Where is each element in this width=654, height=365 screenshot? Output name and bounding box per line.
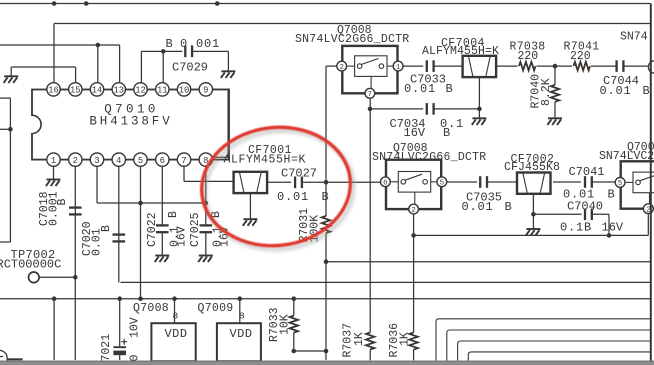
wire pin5 down	[140, 166, 142, 299]
wire drop to ground	[227, 51, 229, 71]
svg-text:B: B	[505, 200, 512, 214]
capacitor C7020	[113, 235, 126, 242]
resistor R7041	[574, 62, 591, 70]
Q7010 pin 16	[47, 83, 60, 96]
wire junction to C7040	[533, 213, 581, 215]
wire Q7008a pin2 stub	[326, 65, 337, 67]
wire pin4 jog down	[120, 281, 122, 283]
tick of bottom left component	[0, 355, 3, 357]
svg-text:10V: 10V	[129, 317, 142, 338]
Q7010 pin 6	[156, 153, 169, 166]
svg-text:10K: 10K	[279, 314, 292, 335]
svg-text:16V: 16V	[176, 226, 189, 247]
wire pin6 down	[161, 166, 163, 226]
wire C7025 to ground	[205, 232, 207, 255]
svg-text:SN74LVC2: SN74LVC2	[599, 150, 654, 163]
svg-text:Q7008: Q7008	[133, 302, 169, 315]
wire nested corner trace 3	[458, 341, 651, 361]
node pin11 junction	[161, 49, 166, 54]
svg-text:1: 1	[51, 156, 56, 166]
wire R7041 to C7044	[591, 65, 617, 67]
wire R7038 to node	[537, 65, 556, 67]
switch U3 Q7008b pin 5	[437, 177, 447, 188]
power block Q7009 VDD	[217, 323, 261, 361]
svg-text:16V: 16V	[602, 220, 624, 234]
svg-text:7021: 7021	[100, 334, 113, 362]
Q7010 notch edge cover	[31, 116, 34, 133]
svg-text:3: 3	[94, 156, 99, 166]
svg-text:6: 6	[160, 156, 165, 166]
wire pin12 to C7029	[141, 50, 182, 52]
ground C7022	[155, 256, 170, 263]
ground R7040	[547, 118, 562, 125]
capacitor C7022	[156, 225, 169, 232]
wire pin3 down	[96, 166, 98, 203]
svg-text:ALFYM455H=K: ALFYM455H=K	[422, 45, 499, 58]
wire left stub upper	[0, 97, 10, 99]
switch U4 right Q70xx box	[621, 161, 654, 208]
wire CF7002 down	[532, 193, 534, 229]
switch U2 Q7008a pin 1	[393, 61, 403, 72]
wire CF7001 to ground	[249, 193, 251, 219]
wire right border	[650, 4, 652, 361]
svg-text:220: 220	[570, 50, 591, 63]
svg-text:0.01: 0.01	[277, 190, 309, 204]
wire CF7002 to C7041	[553, 181, 581, 183]
node pin7 C7034 junction	[368, 107, 373, 112]
junction on top rail	[84, 1, 89, 6]
wire pin15 riser	[75, 67, 77, 83]
resistor R7040	[551, 85, 559, 102]
capacitor C7040	[585, 209, 592, 221]
wire C7021 drop	[119, 299, 121, 347]
ground pin15 net	[4, 76, 19, 83]
node CF7002 C7040 junction	[531, 212, 536, 217]
wire VDD1 drop	[174, 299, 176, 324]
wire pin15 to ground	[11, 66, 75, 68]
capacitor C7029	[185, 46, 192, 58]
node R7033 tap	[292, 296, 297, 301]
wire Q7008a pin7 control line	[369, 98, 371, 332]
node TP7002 junction	[73, 275, 78, 280]
svg-text:220: 220	[518, 50, 539, 63]
junction on top rail	[215, 1, 220, 6]
wire R7033 bottom	[293, 333, 295, 351]
capacitor C7021 plus plate	[113, 346, 126, 348]
wire second rail from pin16	[54, 23, 651, 25]
svg-text:C7025: C7025	[189, 212, 202, 247]
resistor R7031	[322, 216, 330, 233]
wire nested corner trace 4	[468, 352, 650, 361]
wire Q7008b pin5 to C7035	[447, 181, 477, 183]
wire to pins 13-14 from left edge	[0, 44, 120, 46]
svg-text:2: 2	[339, 64, 343, 72]
wire nested corner trace 1	[436, 319, 651, 361]
svg-text:C7040: C7040	[567, 200, 603, 214]
svg-text:9: 9	[203, 86, 208, 96]
node pin5 junction	[138, 201, 143, 206]
capacitor C7041	[585, 176, 592, 188]
wire node to Q7008b pin6	[326, 181, 380, 183]
svg-text:RCT00000C: RCT00000C	[0, 258, 61, 272]
svg-text:B: B	[643, 84, 650, 98]
svg-text:SN74LVC2G66_DCTR: SN74LVC2G66_DCTR	[295, 33, 409, 46]
svg-text:CFJ455K8: CFJ455K8	[504, 161, 560, 174]
wire pin7 to C7034	[370, 108, 423, 110]
svg-text:1: 1	[396, 64, 401, 72]
svg-text:15: 15	[70, 86, 81, 96]
svg-text:C7027: C7027	[281, 167, 317, 181]
wire C7034 to CF7004 ground net	[434, 108, 480, 110]
wire nested corner trace 2	[447, 330, 651, 361]
wire pin3 bus	[97, 202, 206, 204]
wire pin14 riser	[97, 45, 99, 83]
switch U3 Q7008b pin 2	[409, 204, 419, 215]
wire right switch pin2 down	[647, 214, 649, 236]
wire bus3 VDD rail	[0, 298, 651, 300]
svg-text:Q7009: Q7009	[198, 302, 234, 315]
pin circle at right edge	[648, 61, 654, 73]
wire R7033 to R7031 line	[294, 350, 326, 352]
svg-text:B: B	[446, 82, 453, 96]
capacitor C7021 minus plate	[113, 351, 126, 356]
junction on top rail	[52, 1, 57, 6]
wire R7031 to bus	[325, 233, 327, 351]
svg-text:BH4138FV: BH4138FV	[89, 115, 172, 129]
wire into pin8	[212, 156, 228, 158]
node R7031 bottom junction	[324, 349, 329, 354]
wire pin2 down	[74, 166, 76, 360]
wire pin11 riser	[162, 51, 164, 83]
node A filter output	[324, 180, 329, 185]
filter CF7001	[234, 172, 268, 193]
wire C7022 to ground	[161, 232, 163, 255]
wire C7035 to CF7002	[487, 181, 517, 183]
node pin14 junction	[96, 43, 101, 48]
wire node down to R7031	[325, 182, 327, 216]
Q7010 pin 9	[199, 83, 212, 96]
wire pin8 down	[205, 166, 207, 226]
test point TP7002 circle	[29, 272, 40, 283]
wire control to R7036	[413, 235, 415, 332]
resistor R7033	[290, 316, 298, 333]
red highlight ellipse	[195, 120, 356, 254]
wire pin7 down	[183, 166, 185, 182]
svg-text:0.01: 0.01	[563, 188, 595, 202]
svg-text:C7029: C7029	[172, 61, 208, 75]
capacitor C7027	[295, 177, 302, 189]
node Q7008 VDD tap	[172, 296, 177, 301]
node C7040 bus1 junction	[607, 233, 612, 238]
svg-text:C7041: C7041	[569, 165, 605, 179]
switch U2 Q7008a box	[342, 46, 397, 93]
ground CF7001	[243, 219, 258, 226]
svg-text:4: 4	[116, 156, 121, 166]
ground CF7004	[472, 118, 487, 125]
svg-text:VDD: VDD	[229, 327, 252, 341]
svg-text:14: 14	[92, 86, 103, 96]
svg-text:SN74: SN74	[620, 31, 648, 44]
wire pin13 riser	[119, 45, 121, 83]
wire R7036 to bottom	[413, 350, 415, 361]
resistor R7038	[519, 62, 536, 70]
wire left vertical bus	[9, 98, 11, 242]
wire CF7004 to R7038	[496, 65, 517, 67]
wire node to R7040	[554, 66, 556, 85]
wire R7037 to bottom	[369, 350, 371, 361]
wire CF7004 to ground	[478, 77, 480, 118]
Q7010 pin 15	[69, 83, 82, 96]
Q7010 pin 3	[90, 153, 103, 166]
svg-text:B: B	[167, 211, 180, 218]
svg-text:1K: 1K	[353, 332, 366, 346]
wire CF7001 to C7027	[267, 181, 291, 183]
Q7010 pin 4	[112, 153, 125, 166]
svg-text:6: 6	[383, 179, 387, 187]
svg-text:0.001: 0.001	[180, 37, 220, 51]
Q7010 pin 14	[90, 83, 103, 96]
svg-text:16: 16	[48, 86, 59, 96]
red highlight ellipse shadow	[198, 123, 359, 257]
node left bus junction	[8, 127, 13, 132]
resistor R7037	[366, 333, 374, 350]
svg-text:1K: 1K	[398, 332, 411, 346]
node CF7004 C7034 junction	[477, 107, 482, 112]
Q7010 pin 13	[112, 83, 125, 96]
wire tap x54 down	[53, 299, 55, 360]
wire pin7 to CF7001	[184, 180, 234, 182]
wire top rail	[0, 3, 651, 5]
svg-text:0.1B: 0.1B	[560, 220, 592, 234]
switch U2 Q7008a inner switch	[347, 56, 392, 90]
capacitor C7044	[617, 60, 624, 72]
node C7021 tap	[117, 296, 122, 301]
svg-text:0.01: 0.01	[404, 82, 436, 96]
svg-text:B: B	[608, 188, 615, 202]
wire C7044 to edge pin	[623, 65, 650, 67]
switch U3 Q7008b box	[386, 160, 441, 209]
wire node riser to Q7008a	[325, 66, 327, 182]
node pin5 line tap	[138, 296, 143, 301]
wire pin12 riser	[140, 51, 142, 83]
svg-text:0.001: 0.001	[48, 191, 61, 226]
node R7031 bus2 junction	[324, 259, 329, 264]
Q7010 pin 11	[156, 83, 169, 96]
resistor R7036	[409, 333, 417, 350]
wire C7041 to Q7041 pin5	[592, 181, 616, 183]
wire C7021 bottom	[119, 355, 121, 360]
wire C7040 right	[592, 213, 609, 215]
svg-text:2: 2	[411, 207, 415, 215]
svg-text:5: 5	[440, 179, 444, 187]
wire R7040 to ground	[554, 102, 556, 119]
svg-text:ALFYM455H=K: ALFYM455H=K	[224, 154, 307, 167]
wire pin16 riser	[53, 24, 55, 84]
gray bar top shade	[0, 361, 654, 362]
wire left stub lower	[0, 241, 10, 243]
power block Q7008 VDD	[151, 323, 195, 361]
wire node to R7041	[555, 65, 572, 67]
svg-text:5: 5	[138, 156, 143, 166]
capacitor C7018	[69, 208, 82, 215]
wire C7029 to ground corner	[192, 50, 228, 52]
svg-text:SN74LVC2G66_DCTR: SN74LVC2G66_DCTR	[372, 151, 486, 164]
switch U3 Q7008b inner switch	[391, 172, 436, 206]
plus sign of C7021	[121, 339, 127, 345]
svg-text:7: 7	[181, 156, 186, 166]
wire bus1	[414, 234, 649, 236]
svg-text:B: B	[166, 37, 173, 51]
node R7033 bottom	[292, 349, 297, 354]
ground C7025	[198, 256, 213, 263]
op-amp U1 Q7010 BH4138FV body	[32, 90, 229, 160]
svg-text:0.01: 0.01	[462, 200, 494, 214]
capacitor C7035	[480, 176, 487, 188]
Q7010 pin 8	[199, 153, 212, 166]
capacitor C7025	[200, 225, 213, 232]
wire drop to ground	[10, 67, 12, 76]
svg-text:0: 0	[129, 355, 142, 362]
capacitor C7034	[427, 103, 434, 115]
wire R7031 line to bottom	[325, 351, 327, 360]
svg-text:C7022: C7022	[146, 212, 159, 247]
wire Q7008b pin2 down	[413, 214, 415, 235]
wire left stub middle	[0, 128, 10, 130]
filter CF7004	[463, 56, 497, 77]
svg-text:16V: 16V	[404, 126, 426, 140]
node R7040 top	[553, 64, 558, 69]
Q7010 pin 5	[134, 153, 147, 166]
black bar of bottom left component	[7, 358, 22, 360]
node bus1 start	[411, 233, 416, 238]
wire pin4 down	[118, 166, 120, 283]
svg-text:11: 11	[157, 86, 168, 96]
ground CF7002	[526, 229, 541, 236]
switch U2 Q7008a pin 7	[365, 88, 375, 99]
svg-text:B: B	[443, 126, 450, 140]
wire bus2	[326, 261, 651, 263]
partial component at bottom left	[0, 350, 7, 361]
switch U4 right Q70xx inner switch	[626, 172, 654, 205]
node pin8 junction	[204, 201, 209, 206]
wire pin9 down	[227, 89, 229, 157]
switch U2 Q7008a pin 2	[337, 61, 347, 72]
Q7010 pin 10	[177, 83, 190, 96]
wire R7033 top	[293, 299, 295, 316]
svg-text:5: 5	[618, 180, 622, 188]
wire VDD2 drop	[239, 299, 241, 324]
node Q7009 VDD tap	[238, 296, 243, 301]
ground pin1	[46, 180, 61, 187]
wire pin9 out	[212, 88, 228, 90]
gray screen edge bar	[0, 361, 654, 365]
svg-text:2: 2	[73, 156, 78, 166]
svg-text:7: 7	[368, 91, 372, 99]
Q7010 pin 12	[134, 83, 147, 96]
wire testpoint to pin2 line	[39, 276, 75, 278]
svg-text:B: B	[100, 225, 113, 232]
wire C7027 to node	[302, 181, 326, 183]
wire pin4 jog	[121, 281, 651, 283]
wire C7040 drop to bus1	[608, 214, 610, 235]
wire C7033 to CF7004	[434, 65, 463, 67]
switch U4 right Q70xx pin 2	[643, 204, 653, 215]
svg-text:8: 8	[173, 311, 179, 322]
switch U3 Q7008b pin 6	[381, 177, 391, 188]
capacitor C7033	[427, 60, 434, 72]
svg-text:12: 12	[135, 86, 146, 96]
wire Q7008a pin1 to C7033	[403, 65, 423, 67]
svg-text:13: 13	[114, 86, 125, 96]
switch U4 right Q70xx pin 5	[615, 178, 625, 189]
Q7010 pin 1	[47, 153, 60, 166]
filter CF7002	[517, 173, 551, 194]
svg-text:0.01: 0.01	[600, 84, 632, 98]
ground C7029 net	[221, 71, 236, 78]
svg-text:B: B	[322, 190, 329, 204]
svg-text:10: 10	[179, 86, 190, 96]
node tap x54	[52, 296, 57, 301]
Q7010 pin 7	[177, 153, 190, 166]
svg-text:B: B	[56, 199, 69, 206]
Q7010 notch	[32, 115, 41, 133]
svg-text:VDD: VDD	[164, 327, 187, 341]
svg-text:8.2K: 8.2K	[540, 78, 553, 106]
Q7010 pin 2	[69, 153, 82, 166]
wire pin1 to ground	[53, 166, 55, 180]
